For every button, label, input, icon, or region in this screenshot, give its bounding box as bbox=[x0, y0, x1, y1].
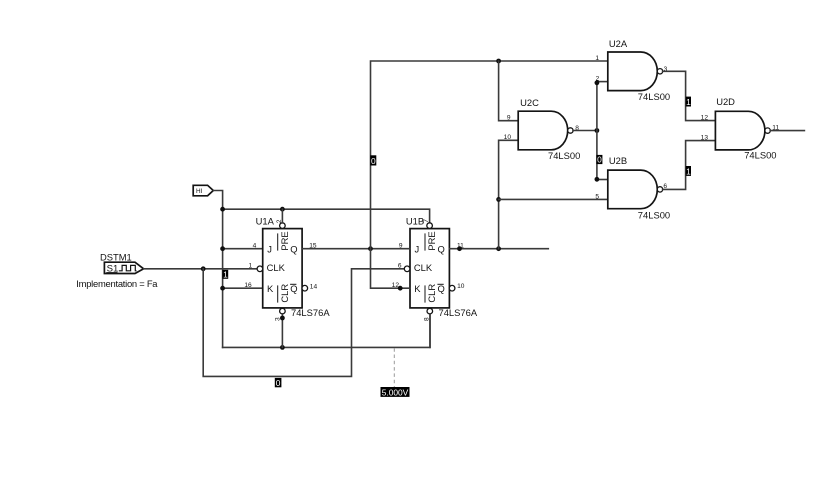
node junction U1A CLR wire bbox=[280, 345, 285, 350]
svg-text:J: J bbox=[415, 243, 420, 254]
wire U2B output to U2D pin 13 bbox=[663, 141, 716, 190]
state marker 1 on U2B out bbox=[686, 166, 691, 176]
wire U1A J pin 4 bbox=[223, 248, 263, 250]
svg-text:5: 5 bbox=[595, 193, 599, 200]
wire stub to U2B pin 4 bbox=[597, 179, 608, 181]
svg-text:J: J bbox=[267, 243, 272, 254]
state marker 1 on U2A out bbox=[686, 97, 691, 107]
svg-text:10: 10 bbox=[504, 134, 512, 141]
svg-text:HI: HI bbox=[196, 188, 203, 195]
node junction mid rail bbox=[595, 128, 600, 133]
svg-text:PRE: PRE bbox=[279, 231, 290, 250]
wire U1B CLR stub bbox=[429, 314, 431, 348]
svg-text:6: 6 bbox=[398, 263, 402, 270]
svg-text:U2D: U2D bbox=[716, 96, 735, 107]
svg-text:10: 10 bbox=[457, 283, 465, 290]
state marker 0 on feedback rail bbox=[370, 155, 376, 165]
wire U1A K pin 16 bbox=[223, 287, 263, 289]
wire to U2B pin 5 bbox=[499, 198, 608, 200]
wire mid rail vertical U2A.2 to U2B.4 bbox=[596, 82, 598, 180]
svg-text:4: 4 bbox=[253, 242, 257, 249]
svg-text:DSTM1: DSTM1 bbox=[100, 251, 132, 262]
node junction U1A PRE bbox=[280, 207, 285, 212]
svg-text:1: 1 bbox=[249, 263, 253, 270]
nand gate U2C 74LS00 bbox=[518, 111, 573, 150]
node junction K rail bbox=[220, 286, 225, 291]
node pin-12 connection dot bbox=[398, 286, 403, 291]
svg-text:U2B: U2B bbox=[609, 155, 627, 166]
pin bubble U1B CLK pin 6 bbox=[404, 266, 410, 272]
wire U1A PRE stub bbox=[281, 209, 283, 223]
wire feedback to U1B K pin 12 bbox=[371, 249, 411, 289]
wire U2C pin 10 rail bbox=[499, 140, 519, 248]
svg-text:0: 0 bbox=[276, 378, 281, 388]
svg-text:U1A: U1A bbox=[256, 215, 275, 226]
svg-text:CLK: CLK bbox=[414, 262, 433, 273]
stimulus DSTM1 bbox=[104, 262, 143, 274]
node junction HI-PRE rail bbox=[220, 207, 225, 212]
pin bubble U1A CLK pin 1 bbox=[257, 266, 263, 272]
state marker 1 on HI rail bbox=[222, 270, 228, 279]
wire HI vertical rail bbox=[222, 209, 224, 347]
svg-text:13: 13 bbox=[701, 134, 709, 141]
wire HI tip to corner bbox=[213, 191, 222, 210]
wire stub to U2A pin 2 bbox=[597, 81, 608, 83]
svg-text:CLK: CLK bbox=[267, 262, 286, 273]
nand gate U2B 74LS00 bbox=[608, 170, 663, 209]
pin bubble U1A Qbar pin 14 bbox=[302, 285, 308, 291]
svg-text:14: 14 bbox=[310, 284, 318, 291]
svg-text:K: K bbox=[267, 283, 274, 294]
svg-text:Q: Q bbox=[290, 243, 297, 254]
pin bubble U1B CLR pin 8 bbox=[427, 308, 433, 314]
svg-text:1: 1 bbox=[223, 270, 228, 280]
svg-text:K: K bbox=[414, 283, 421, 294]
svg-text:9: 9 bbox=[507, 115, 511, 122]
node junction Q1B rail bbox=[496, 246, 501, 251]
node pin-2 connection dot bbox=[595, 80, 600, 85]
svg-text:1: 1 bbox=[686, 97, 691, 107]
wire drop to U2C pin 9 bbox=[499, 61, 519, 121]
svg-text:74LS76A: 74LS76A bbox=[439, 307, 478, 318]
pin number U1A 3 (rotated) bbox=[275, 317, 282, 321]
svg-text:12: 12 bbox=[701, 115, 709, 122]
wire U2A output to U2D pin 12 bbox=[663, 71, 716, 120]
svg-text:1: 1 bbox=[595, 55, 599, 62]
svg-text:0: 0 bbox=[371, 156, 376, 166]
svg-text:U2A: U2A bbox=[609, 38, 628, 49]
svg-text:74LS00: 74LS00 bbox=[744, 150, 776, 161]
svg-text:74LS00: 74LS00 bbox=[638, 209, 670, 220]
state marker 0 on clock route bbox=[275, 378, 282, 387]
node junction J rail bbox=[220, 246, 225, 251]
svg-text:8: 8 bbox=[424, 317, 431, 321]
svg-text:Q: Q bbox=[438, 243, 445, 254]
svg-text:CLR: CLR bbox=[426, 284, 437, 303]
flip-flop U1A 74LS76A bbox=[263, 229, 302, 308]
pin bubble U1B Qbar pin 10 bbox=[449, 285, 455, 291]
node pin-4 connection dot bbox=[595, 177, 600, 182]
pin number U1B 8 (rotated) bbox=[424, 317, 431, 321]
svg-text:CLR: CLR bbox=[279, 284, 290, 303]
wire clock route down-right-up to U1B CLK bbox=[203, 269, 404, 377]
wire HI bottom run to U1B CLR bbox=[223, 314, 430, 347]
svg-text:0: 0 bbox=[597, 155, 602, 165]
node junction feedback rail top bbox=[368, 246, 373, 251]
svg-text:74LS00: 74LS00 bbox=[638, 91, 670, 102]
node pin-11 connection dot bbox=[457, 246, 462, 251]
pin number U1B 7 (rotated) bbox=[423, 219, 430, 223]
svg-text:U2C: U2C bbox=[520, 97, 539, 108]
svg-text:7: 7 bbox=[423, 219, 430, 223]
nand gate U2D 74LS00 bbox=[715, 111, 770, 150]
voltage probe 5.000V bbox=[393, 348, 395, 387]
hi-level symbol HI bbox=[193, 185, 213, 196]
pin bubble U1A PRE pin 2 bbox=[280, 223, 286, 229]
node junction DSTM branch bbox=[201, 266, 206, 271]
wire DSTM1 to U1A CLK bbox=[144, 268, 258, 270]
wire U1B Q pin 11 output bbox=[449, 248, 548, 250]
pin number U1A 2 (rotated) bbox=[276, 219, 283, 223]
svg-text:74LS00: 74LS00 bbox=[548, 150, 580, 161]
wire U2D output bbox=[770, 130, 804, 132]
wire U1A CLR stub bbox=[281, 314, 283, 348]
wire U1A Q to U1B J bbox=[302, 248, 410, 250]
svg-text:2: 2 bbox=[596, 76, 600, 83]
svg-text:16: 16 bbox=[244, 282, 252, 289]
svg-text:PRE: PRE bbox=[426, 231, 437, 250]
svg-text:5.000V: 5.000V bbox=[382, 388, 409, 398]
svg-text:3: 3 bbox=[275, 317, 282, 321]
svg-text:Implementation = Fa: Implementation = Fa bbox=[76, 278, 158, 289]
wire U2C output to mid rail bbox=[573, 130, 597, 132]
flip-flop U1B 74LS76A bbox=[410, 229, 449, 308]
node pin-3 connection dot bbox=[280, 316, 285, 321]
pin bubble U1A CLR pin 3 bbox=[280, 308, 286, 314]
svg-text:1: 1 bbox=[686, 166, 691, 176]
wire feedback rail to top run bbox=[371, 61, 608, 249]
node junction U2B pin5 bbox=[496, 197, 501, 202]
nand gate U2A 74LS00 bbox=[608, 52, 663, 91]
svg-text:74LS76A: 74LS76A bbox=[291, 307, 330, 318]
pin bubble U1B PRE pin 7 bbox=[427, 223, 433, 229]
state marker 0 on mid rail bbox=[596, 155, 602, 164]
node junction U2C pin9 drop bbox=[496, 59, 501, 64]
svg-text:2: 2 bbox=[276, 219, 283, 223]
wire PRE feed horizontal bbox=[223, 209, 430, 223]
svg-text:U1B: U1B bbox=[406, 215, 424, 226]
